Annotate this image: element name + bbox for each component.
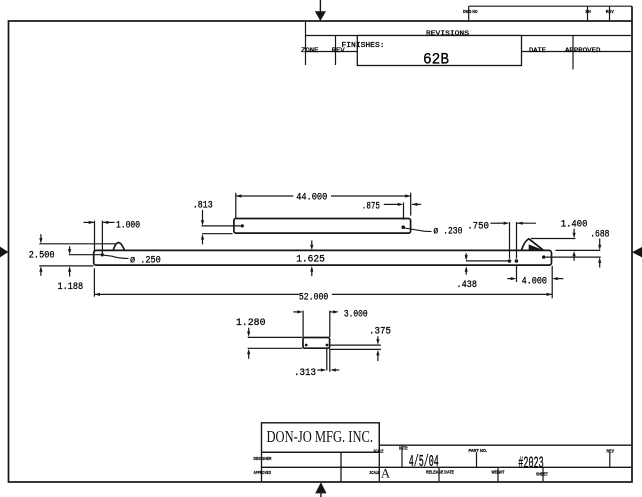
svg-text:FINISHES:: FINISHES:: [342, 42, 385, 50]
svg-text:44.000: 44.000: [296, 192, 327, 204]
svg-text:WEIGHT: WEIGHT: [492, 469, 505, 474]
svg-text:ø .230: ø .230: [433, 226, 462, 238]
svg-text:.750: .750: [467, 221, 489, 233]
svg-text:4.000: 4.000: [522, 275, 547, 287]
svg-text:REV: REV: [606, 9, 614, 14]
svg-text:ZONE: ZONE: [301, 47, 319, 55]
svg-text:.313: .313: [294, 367, 316, 379]
svg-text:1.000: 1.000: [116, 219, 140, 231]
svg-text:1.280: 1.280: [236, 317, 266, 329]
svg-text:DON-JO MFG. INC.: DON-JO MFG. INC.: [267, 427, 374, 446]
svg-text:APPROVED: APPROVED: [254, 470, 272, 475]
svg-text:APPROVED: APPROVED: [565, 47, 601, 55]
svg-text:1.400: 1.400: [561, 219, 588, 231]
svg-text:REVISIONS: REVISIONS: [426, 30, 469, 38]
svg-text:1.625: 1.625: [296, 254, 325, 266]
svg-text:4/5/04: 4/5/04: [409, 452, 439, 471]
svg-text:2.500: 2.500: [29, 250, 55, 262]
svg-text:.688: .688: [590, 229, 609, 241]
svg-text:DATE: DATE: [529, 47, 546, 55]
svg-text:SCALE: SCALE: [374, 448, 384, 453]
svg-text:DATE:: DATE:: [399, 445, 408, 450]
svg-text:DESIGNER: DESIGNER: [254, 456, 273, 461]
svg-text:3.000: 3.000: [344, 308, 368, 320]
svg-text:REV: REV: [607, 448, 615, 453]
svg-text:1.188: 1.188: [58, 281, 84, 293]
svg-text:.875: .875: [362, 200, 380, 212]
svg-text:.438: .438: [457, 279, 478, 291]
svg-text:#2023: #2023: [518, 454, 543, 473]
svg-text:52.000: 52.000: [299, 292, 328, 304]
svg-text:DWG NO: DWG NO: [463, 9, 478, 14]
svg-text:.375: .375: [369, 325, 391, 337]
svg-text:SH: SH: [585, 9, 591, 14]
svg-text:ø .250: ø .250: [130, 254, 161, 266]
svg-text:62B: 62B: [423, 50, 449, 68]
svg-text:PART NO.: PART NO.: [469, 448, 488, 453]
svg-text:SCALE: SCALE: [370, 470, 380, 475]
svg-text:A: A: [381, 466, 391, 481]
svg-text:.813: .813: [193, 200, 213, 212]
